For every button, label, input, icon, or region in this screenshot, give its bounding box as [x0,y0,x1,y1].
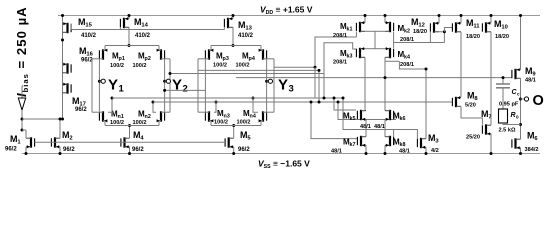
svg-text:M: M [467,91,475,101]
svg-text:n2: n2 [145,114,151,120]
svg-text:208/1: 208/1 [333,33,347,39]
svg-text:18/20: 18/20 [466,34,480,40]
svg-text:100/2: 100/2 [213,62,227,68]
svg-text:p1: p1 [119,56,125,62]
svg-text:208/1: 208/1 [400,62,414,68]
svg-text:15: 15 [85,22,92,28]
svg-text:k6: k6 [400,116,406,122]
svg-text:3: 3 [289,84,294,95]
svg-text:M: M [62,130,70,140]
svg-text:p2: p2 [145,56,151,62]
svg-text:n3: n3 [224,113,230,119]
svg-text:R: R [511,112,516,119]
svg-text:k2: k2 [404,28,410,34]
svg-text:410/2: 410/2 [135,33,151,39]
svg-text:O: O [533,93,544,109]
svg-text:k3: k3 [347,53,353,59]
svg-text:48/1: 48/1 [374,124,385,130]
svg-text:2.5 kΩ: 2.5 kΩ [499,128,516,134]
svg-text:12: 12 [418,22,424,28]
svg-text:7: 7 [488,114,491,120]
svg-text:25/20: 25/20 [466,135,480,141]
svg-text:0.95 pF: 0.95 pF [499,102,519,108]
svg-text:96/2: 96/2 [75,107,87,113]
svg-text:384/2: 384/2 [525,147,539,153]
svg-text:n4: n4 [250,113,256,119]
svg-text:M: M [72,96,80,106]
svg-text:18/20: 18/20 [495,34,509,40]
svg-text:100/2: 100/2 [133,120,147,126]
svg-text:k8: k8 [400,142,406,148]
svg-text:Y: Y [172,77,182,94]
svg-text:M: M [240,130,248,140]
svg-text:M: M [494,19,502,29]
svg-text:48/1: 48/1 [399,149,410,155]
svg-text:M: M [134,17,142,27]
svg-text:M: M [411,17,419,27]
svg-text:96/2: 96/2 [238,147,250,153]
svg-text:Y: Y [108,77,118,94]
svg-text:96/2: 96/2 [132,147,144,153]
svg-text:100/2: 100/2 [110,63,124,69]
svg-text:100/2: 100/2 [237,120,251,126]
svg-text:p3: p3 [223,56,229,62]
svg-text:c: c [517,92,520,97]
svg-text:M: M [466,18,474,28]
svg-text:n1: n1 [118,114,124,120]
svg-text:10: 10 [501,24,507,30]
svg-text:100/2: 100/2 [133,63,147,69]
svg-text:96/2: 96/2 [63,147,75,153]
svg-text:16: 16 [86,51,93,57]
svg-text:13: 13 [245,25,252,31]
svg-text:M: M [481,109,489,119]
svg-text:0: 0 [516,115,519,120]
svg-text:k7: k7 [350,142,356,148]
svg-text:2: 2 [69,135,72,141]
svg-text:2: 2 [183,84,188,95]
svg-text:18/20: 18/20 [413,29,427,35]
svg-text:M: M [238,20,246,30]
svg-text:k1: k1 [347,26,353,32]
svg-text:M: M [527,131,535,141]
svg-text:M: M [10,134,18,144]
svg-text:k5: k5 [350,116,356,122]
svg-text:96/2: 96/2 [5,147,17,153]
svg-text:100/2: 100/2 [110,120,124,126]
svg-text:48/1: 48/1 [331,149,342,155]
svg-text:4/2: 4/2 [431,148,439,154]
svg-text:k4: k4 [404,54,410,60]
svg-text:M: M [525,66,533,76]
svg-text:M: M [133,130,141,140]
svg-text:11: 11 [473,23,480,29]
svg-text:5/20: 5/20 [465,103,476,109]
svg-text:M: M [78,17,86,27]
svg-text:100/2: 100/2 [236,62,250,68]
svg-text:Y: Y [278,77,288,94]
svg-text:p4: p4 [249,56,255,62]
svg-text:410/2: 410/2 [81,33,97,39]
svg-text:100/2: 100/2 [214,120,228,126]
svg-text:14: 14 [141,22,148,28]
svg-text:1: 1 [119,84,125,95]
svg-text:410/2: 410/2 [238,33,254,39]
svg-text:M: M [428,133,436,143]
svg-text:48/1: 48/1 [525,78,536,84]
svg-text:M: M [79,46,87,56]
svg-text:48/1: 48/1 [360,124,371,130]
svg-text:208/1: 208/1 [333,60,347,66]
svg-text:96/2: 96/2 [81,58,93,64]
